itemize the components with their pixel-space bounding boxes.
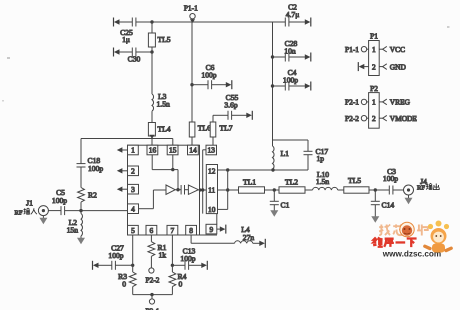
svg-text:12: 12 (208, 166, 216, 175)
wire J1 to C5 (48, 210, 61, 212)
svg-text:GND: GND (390, 62, 407, 71)
transmission line TL5 (148, 22, 170, 52)
wire block to pin 9 (216, 214, 218, 225)
node P1-1 (345, 45, 369, 54)
svg-text:1: 1 (372, 98, 376, 107)
svg-text:1μ: 1μ (122, 35, 130, 44)
ground (below J1) (39, 216, 47, 225)
node VMODE (379, 114, 417, 123)
resistor R4 0 (169, 265, 187, 294)
svg-text:RF: RF (15, 209, 23, 216)
pin 14 (188, 145, 199, 155)
inductor L1 (273, 140, 290, 170)
svg-text:1p: 1p (317, 154, 325, 163)
capacitor C1 (270, 190, 290, 211)
node GND (379, 62, 406, 71)
svg-text:L1: L1 (281, 149, 290, 158)
svg-text:0: 0 (122, 280, 126, 289)
ground (right of L4) (253, 239, 265, 248)
svg-text:6: 6 (150, 226, 154, 235)
connector terminal P2-2 (below R1) (146, 268, 160, 285)
capacitor C55 3.6p (213, 93, 239, 120)
svg-text:2: 2 (372, 62, 376, 71)
svg-text:VREG: VREG (390, 98, 411, 107)
node VCC (379, 45, 405, 54)
svg-text:VMODE: VMODE (390, 114, 418, 123)
svg-text:4.7μ: 4.7μ (286, 10, 300, 19)
svg-text:4: 4 (131, 204, 135, 213)
resistor R1 1k (148, 242, 167, 268)
svg-text:11: 11 (208, 186, 215, 195)
connector P1 header (369, 32, 380, 76)
node VREG (379, 98, 410, 107)
transmission line TL2 (279, 178, 305, 194)
ground (right of C6) (212, 80, 232, 89)
svg-text:9: 9 (210, 225, 214, 234)
svg-text:P2: P2 (370, 84, 378, 93)
svg-text:C14: C14 (382, 201, 395, 210)
pin 2 (128, 166, 139, 176)
ground (left of C27) (93, 261, 112, 270)
svg-text:100p: 100p (88, 164, 103, 173)
svg-text:1: 1 (131, 146, 135, 155)
svg-text:C30: C30 (128, 55, 141, 64)
ground (below C1) (270, 210, 278, 217)
svg-text:1.5n: 1.5n (316, 177, 329, 186)
transmission line TL1 (239, 178, 265, 194)
svg-text:P1-1: P1-1 (184, 4, 198, 13)
connector J1 RF input (15, 199, 49, 217)
wire bus stub to pin 15 (172, 139, 174, 146)
capacitor C2 4.7u (285, 3, 299, 27)
pin 13 (206, 145, 217, 155)
node P2-2 (345, 114, 369, 123)
capacitor C28 10n (273, 39, 298, 62)
svg-text:TL5: TL5 (158, 35, 171, 44)
wire pin 4 internal to amp (139, 190, 167, 209)
wire TL4 to bus (arrow into pin16 net) (149, 135, 154, 139)
pin 16 (147, 145, 158, 155)
ground (right of C4) (289, 82, 311, 91)
wire C30 to node (136, 50, 154, 53)
svg-text:15n: 15n (67, 226, 79, 235)
ground (pin 9) (217, 225, 226, 234)
pin 4 (128, 204, 139, 214)
ground (right of C13) (189, 261, 208, 270)
svg-text:15: 15 (169, 146, 177, 155)
svg-text:J1: J1 (26, 199, 33, 208)
svg-text:16: 16 (149, 146, 157, 155)
svg-text:100p: 100p (283, 76, 298, 85)
svg-text:RF: RF (417, 185, 425, 192)
svg-text:2: 2 (372, 114, 376, 123)
ground (below C14) (371, 216, 379, 223)
svg-text:P2-1: P2-1 (146, 307, 160, 310)
wire pin 10 net (218, 170, 230, 209)
capacitor C27 100p (108, 244, 132, 270)
ground (below J4) (405, 195, 413, 204)
wire bus stub to pin 16 (151, 139, 153, 146)
wire VCC top rail (152, 21, 285, 23)
wire TL3 to C3 (369, 188, 389, 191)
capacitor interstage (181, 185, 188, 195)
ground (P1 pin 2) (358, 62, 368, 71)
svg-text:10n: 10n (284, 47, 296, 56)
capacitor C18 100p (77, 156, 104, 188)
transmission line TL7 (210, 115, 233, 145)
capacitor C14 (371, 190, 395, 217)
wire bottom rail (133, 293, 173, 296)
inductor L4 27n (235, 225, 255, 243)
wire C25 to node (136, 20, 154, 23)
ground (pin 3) (117, 187, 128, 192)
capacitor C3 100p (383, 167, 398, 194)
ground (right of C28) (289, 53, 311, 62)
wire pin 16 internal (152, 155, 173, 170)
svg-text:3.6p: 3.6p (224, 101, 237, 110)
pin 15 (167, 145, 178, 155)
wire VCC right rail down (271, 22, 274, 140)
svg-text:C1: C1 (281, 201, 290, 210)
svg-text:8: 8 (189, 226, 193, 235)
transmission line TL6 (189, 122, 211, 145)
svg-text:R2: R2 (88, 191, 97, 200)
IC U1 body (128, 145, 218, 235)
svg-text:TL2: TL2 (285, 178, 298, 187)
ground (left of C30) (114, 48, 133, 57)
svg-text:P2-2: P2-2 (146, 276, 160, 285)
op-amp U1 stage 1 (166, 185, 181, 194)
svg-text:5: 5 (131, 226, 135, 235)
wire pin 6 down (150, 235, 152, 242)
svg-text:P1: P1 (370, 32, 378, 41)
capacitor C17 1p (273, 140, 329, 170)
svg-text:1k: 1k (159, 251, 167, 260)
svg-text:100p: 100p (201, 71, 216, 80)
svg-text:1: 1 (372, 45, 376, 54)
connector P2 header (369, 84, 380, 128)
capacitor C13 100p (172, 247, 195, 270)
wire pin 8 to L4 (191, 235, 234, 243)
svg-text:TL6: TL6 (198, 124, 211, 133)
svg-text:7: 7 (171, 226, 175, 235)
pin 1 (128, 145, 139, 155)
wire pin 7 down (171, 235, 174, 267)
wire pin 15 internal (171, 155, 180, 192)
ground (right of C55) (232, 111, 253, 120)
ground (pin 2) (117, 168, 128, 173)
connector terminal P2-1 (bottom) (146, 295, 160, 310)
svg-text:100p: 100p (52, 196, 67, 205)
wire C5 to pin 4 (65, 209, 128, 212)
wire pin 12 net (218, 168, 309, 171)
inductor L3 1.5n (152, 92, 170, 111)
ground (pin 1) (117, 147, 128, 152)
svg-text:13: 13 (208, 146, 216, 155)
resistor R2 (78, 188, 97, 211)
ground (left of C25) (114, 18, 133, 27)
svg-text:www.dzsc.com: www.dzsc.com (382, 250, 441, 259)
wire TL2 to L10 (305, 189, 313, 191)
wire horizontal bus above IC (81, 138, 173, 140)
wire pin 11 to TL1 (218, 189, 239, 191)
connector terminal P1-1 (top) (184, 4, 198, 23)
ground (below L2) (77, 236, 85, 244)
capacitor C25 (120, 18, 136, 44)
svg-text:10: 10 (208, 205, 216, 214)
svg-text:100p: 100p (383, 174, 398, 183)
pin 5 (128, 225, 139, 235)
svg-text:TL5: TL5 (348, 176, 361, 185)
pin 9 (206, 224, 217, 234)
resistor R3 0 (118, 265, 136, 294)
wire pin 13 to output block (201, 150, 206, 214)
svg-text:0: 0 (179, 280, 183, 289)
wire VCC branch down to TL6 (190, 22, 193, 122)
pin 6 (146, 225, 157, 235)
op-amp U1 stage 2 (188, 185, 206, 194)
svg-text:TL7: TL7 (220, 124, 233, 133)
svg-text:P1-1: P1-1 (345, 45, 359, 54)
wire pin 5 down (131, 235, 134, 267)
svg-text:VCC: VCC (390, 45, 405, 54)
svg-text:100p: 100p (180, 254, 195, 263)
ground (right of C2) (289, 18, 311, 27)
inductor L2 15n (67, 211, 83, 236)
svg-text:100p: 100p (108, 251, 123, 260)
transmission line TL4 (148, 111, 170, 136)
pin 3 (128, 184, 139, 194)
capacitor C30 (128, 48, 141, 64)
wire TL1 to node (265, 188, 280, 191)
svg-text:3: 3 (131, 185, 135, 194)
svg-text:P2-1: P2-1 (345, 98, 359, 107)
svg-text:P2-2: P2-2 (345, 114, 359, 123)
wire node to L3 (151, 52, 153, 94)
pin 8 (186, 225, 197, 235)
svg-text:1.5n: 1.5n (157, 100, 170, 109)
connector J4 RF output (393, 177, 439, 195)
capacitor C6 100p (192, 63, 217, 89)
pin 7 (167, 225, 178, 235)
capacitor C4 100p (273, 68, 299, 91)
inductor L10 1.5n (313, 170, 338, 190)
capacitor C5 100p (52, 188, 67, 215)
transmission line TL3 (338, 176, 369, 193)
pins 12 11 10 block (206, 165, 217, 215)
svg-text:27n: 27n (243, 233, 255, 242)
svg-text:14: 14 (189, 146, 197, 155)
wire bus down to C18 (80, 139, 82, 164)
svg-text:2: 2 (131, 167, 135, 176)
node P2-1 (345, 98, 369, 107)
svg-text:TL1: TL1 (243, 178, 256, 187)
svg-text:TL4: TL4 (158, 125, 171, 134)
